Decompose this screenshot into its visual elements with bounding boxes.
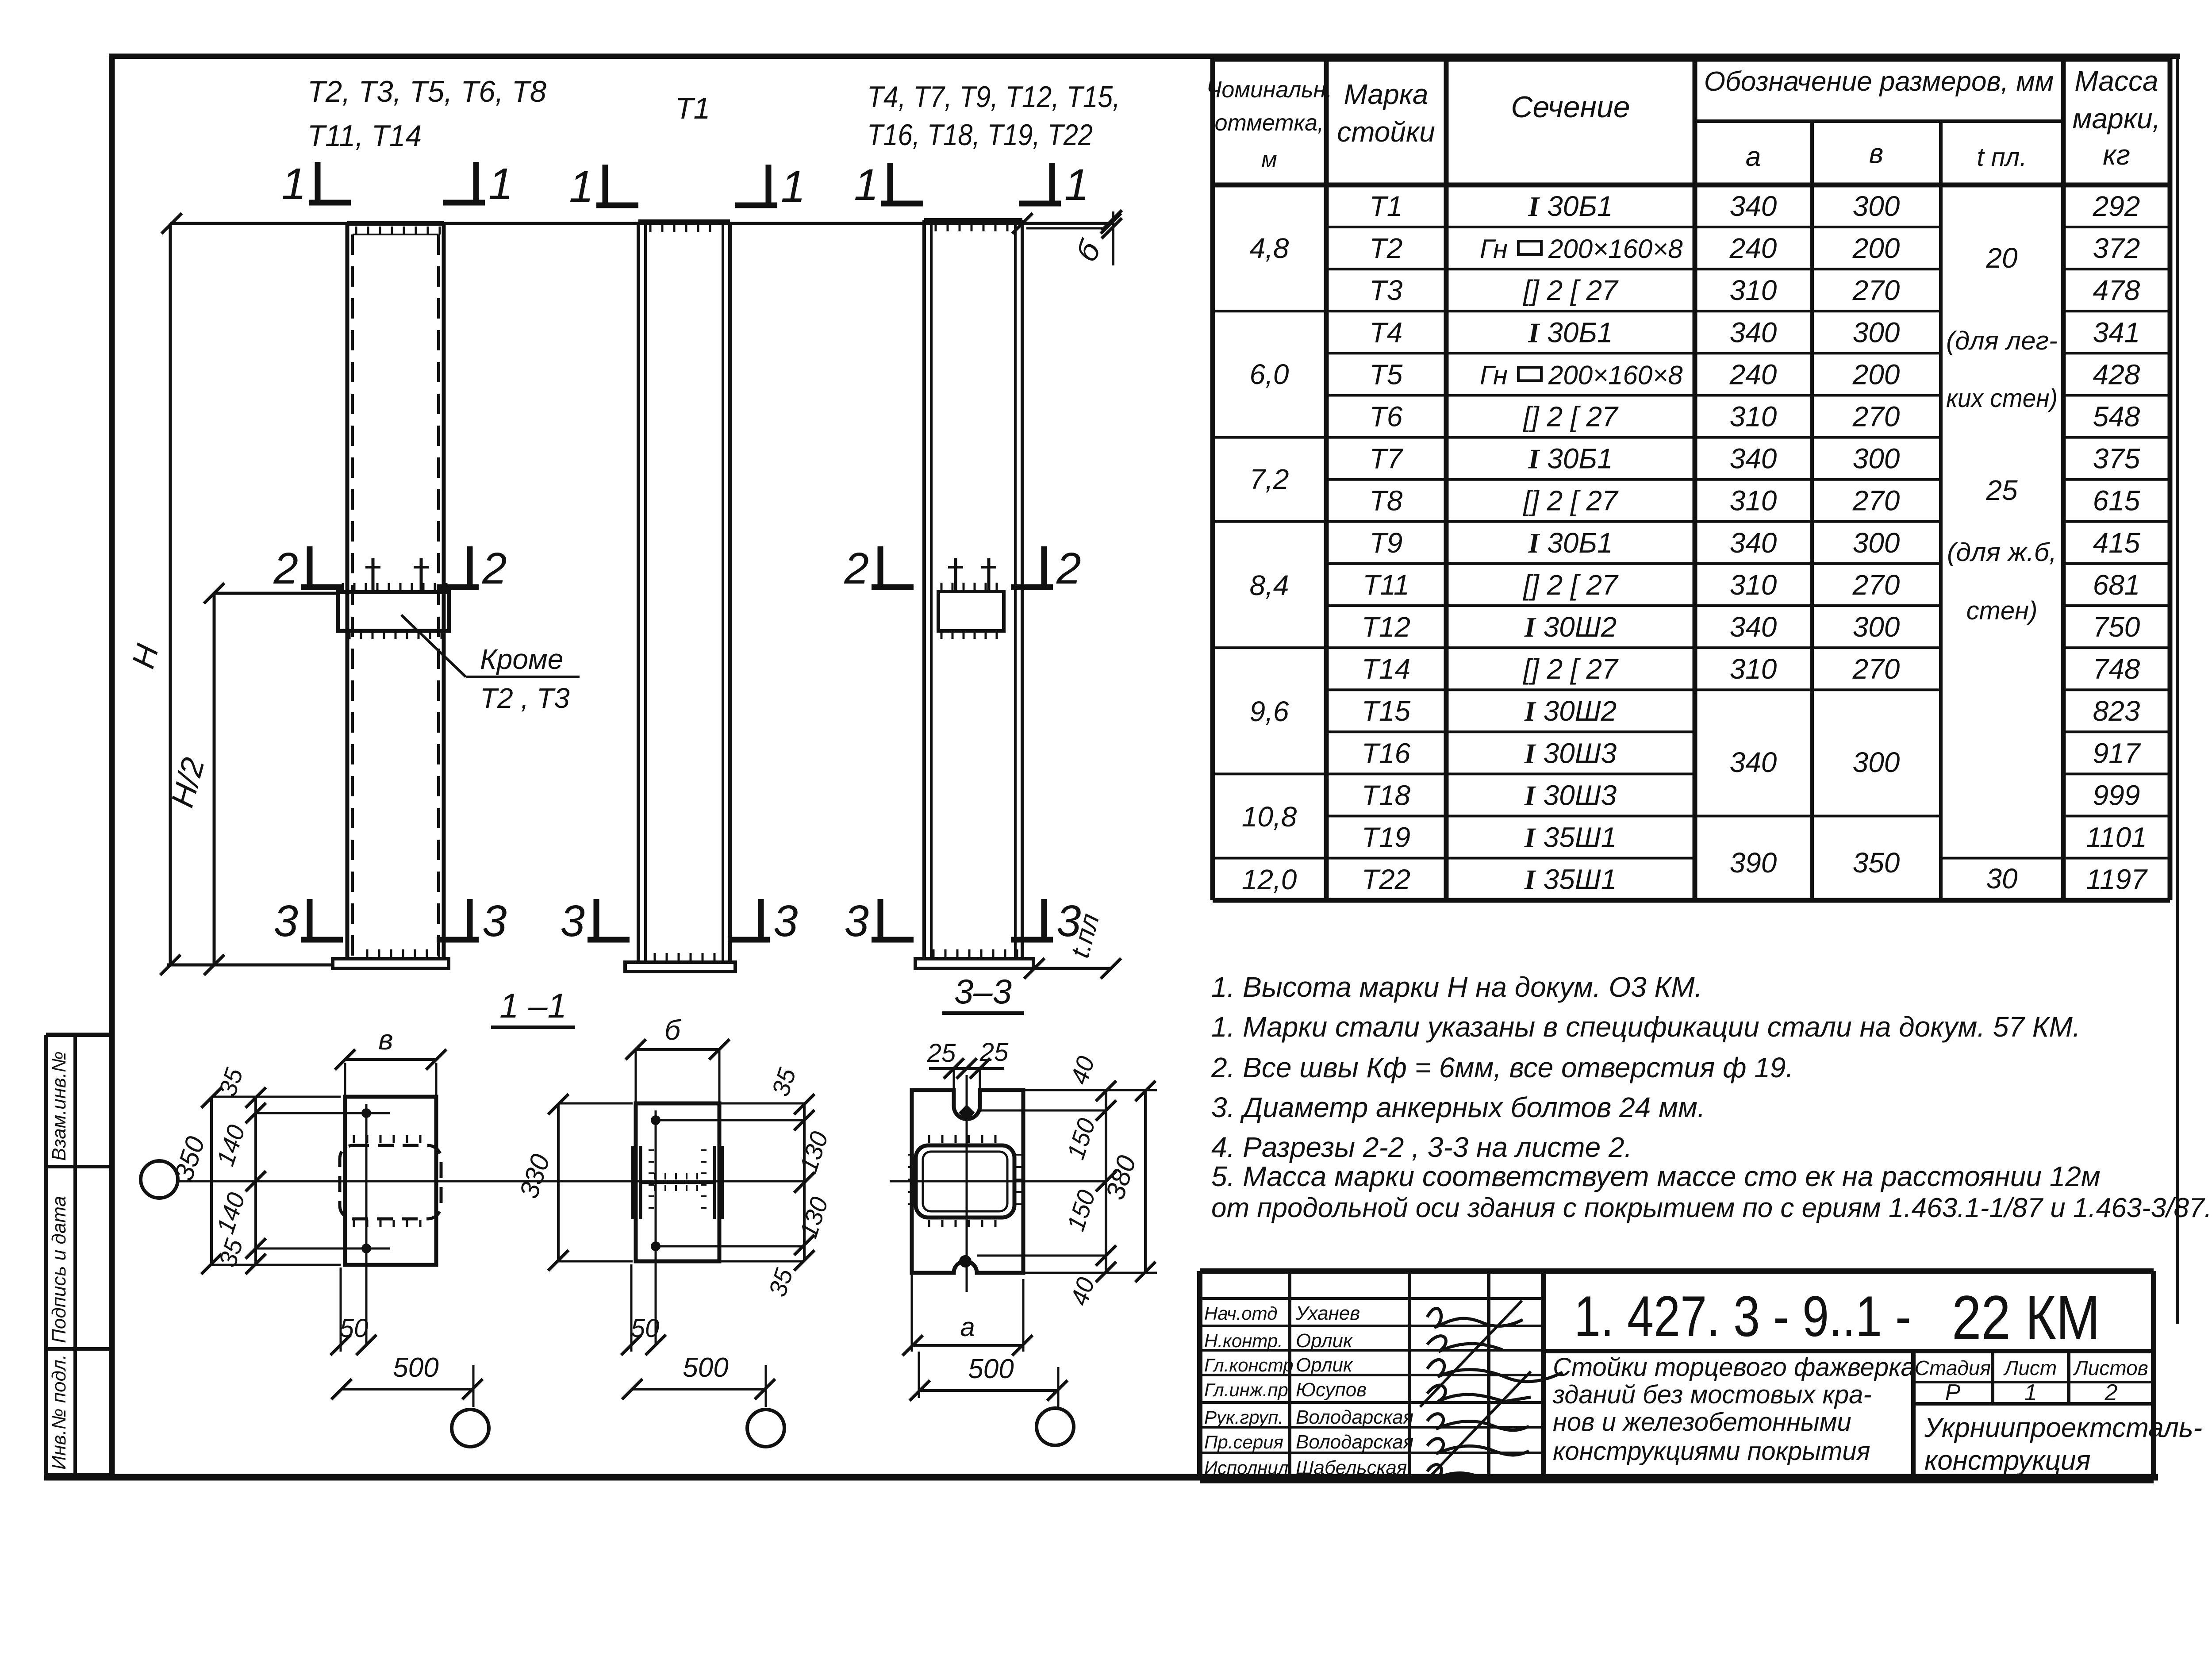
svg-text:Листов: Листов [2073,1356,2148,1379]
svg-text:I 30Б1: I 30Б1 [1528,443,1613,475]
leader: Кроме Т2, Т3 [401,615,466,677]
svg-text:[] 2 [ 27: [] 2 [ 27 [1522,274,1619,306]
section 1-1 view A: base plate [345,1097,436,1265]
svg-text:Взам.инв.№: Взам.инв.№ [48,1051,70,1161]
dim 380 (far right of 3-3) [1144,1090,1147,1273]
svg-text:3: 3 [273,896,298,946]
svg-text:б: б [664,1014,681,1046]
svg-text:Стадия: Стадия [1915,1356,1991,1379]
dimension б (top right) [1026,227,1105,230]
section 3-3: anchor bolt (bottom notch) [959,1255,972,1268]
svg-text:Т3: Т3 [1370,274,1403,306]
svg-text:I 35Ш1: I 35Ш1 [1524,864,1617,895]
svg-text:марки,: марки, [2073,103,2161,134]
svg-text:4. Разрезы 2-2 , 3-3 на: 4. Разрезы 2-2 , 3-3 на листе 2. [1211,1131,1632,1163]
svg-text:372: 372 [2093,232,2140,264]
svg-text:300: 300 [1853,611,1900,643]
svg-text:Орлик: Орлик [1296,1354,1353,1376]
svg-text:Пр.серия: Пр.серия [1204,1432,1283,1452]
svg-text:Т5: Т5 [1370,358,1403,390]
svg-text:3: 3 [560,896,585,946]
svg-text:Т18: Т18 [1362,779,1411,811]
dim 500 (bottom, left section) [341,1388,473,1390]
left frame strip (Инв.№ подл. / Подпись и дата / Взам.инв.№) [44,1035,48,1475]
svg-text:1. 427. 3 - 9..1 -: 1. 427. 3 - 9..1 - [1574,1284,1911,1348]
section mark 1 (right column, right) [1049,163,1055,204]
svg-text:375: 375 [2093,443,2140,475]
svg-text:[] 2 [ 27: [] 2 [ 27 [1522,485,1619,517]
svg-text:25: 25 [1985,474,2018,506]
dim 350 (left of section 1-1 A) [210,1097,213,1265]
base plate of middle column [625,962,735,972]
svg-text:1: 1 [854,160,879,210]
svg-text:2. Все швы Кф = 6мм, все: 2. Все швы Кф = 6мм, все отверстия ф 19. [1211,1052,1793,1083]
svg-text:615: 615 [2093,485,2140,517]
svg-text:1: 1 [781,162,806,211]
svg-text:270: 270 [1852,401,1900,433]
svg-text:340: 340 [1730,190,1777,222]
svg-text:конструкция: конструкция [1924,1445,2091,1476]
svg-text:Н.контр.: Н.контр. [1204,1330,1283,1351]
svg-text:310: 310 [1730,569,1777,601]
svg-text:3–3: 3–3 [954,972,1012,1011]
dim chain 40/150/150/40 (right of 3-3) [1105,1090,1107,1273]
svg-text:2: 2 [2104,1380,2118,1406]
svg-text:I 30Ш2: I 30Ш2 [1524,695,1617,727]
svg-text:I 30Ш3: I 30Ш3 [1524,779,1617,811]
svg-text:310: 310 [1730,653,1777,685]
svg-text:а: а [1746,142,1761,172]
column elevation T1 [637,222,640,962]
section mark 1 (left column, right) [473,162,479,203]
svg-text:I 30Б1: I 30Б1 [1528,190,1613,222]
svg-text:Гн: Гн [1480,234,1508,264]
svg-text:Т4: Т4 [1370,316,1403,348]
svg-text:Т14: Т14 [1362,653,1410,685]
dim в (top of section 1-1 A) [345,1058,436,1061]
svg-text:3: 3 [773,896,798,946]
section mark 3 (right column) [878,899,883,940]
grid circle below section 3-3 [1037,1408,1074,1445]
svg-text:Подпись и дата: Подпись и дата [48,1196,70,1343]
svg-text:[] 2 [ 27: [] 2 [ 27 [1522,653,1619,685]
svg-text:270: 270 [1852,274,1900,306]
svg-text:Т19: Т19 [1362,822,1410,853]
svg-text:Т6: Т6 [1370,401,1403,433]
svg-text:I 30Б1: I 30Б1 [1528,527,1613,559]
svg-text:748: 748 [2093,653,2140,685]
svg-text:300: 300 [1853,527,1900,559]
svg-text:20: 20 [1985,242,2018,274]
svg-text:1. Высота марки Н на до: 1. Высота марки Н на докум. О3 КМ. [1211,971,1702,1003]
svg-text:500: 500 [968,1354,1014,1384]
svg-text:1. Марки стали указаны в с: 1. Марки стали указаны в спецификации ст… [1211,1011,2081,1043]
section 1-1 view B: I-beam flanges [631,1146,634,1219]
dim а (below 3-3) [911,1273,913,1352]
svg-text:зданий без мостовых кра-: зданий без мостовых кра- [1552,1380,1872,1409]
svg-text:(для лег-: (для лег- [1946,326,2058,355]
svg-text:681: 681 [2093,569,2140,601]
svg-text:а: а [960,1312,975,1342]
svg-text:Т8: Т8 [1370,485,1403,517]
bolt lines section 1-1 A [256,1112,390,1114]
svg-text:50: 50 [340,1314,369,1343]
svg-text:7,2: 7,2 [1250,463,1289,495]
axis line through sections 1-1 [178,1180,804,1183]
bottom reference line at column bases [167,964,333,967]
svg-text:240: 240 [1729,358,1777,390]
svg-text:Сечение: Сечение [1511,90,1630,124]
svg-text:292: 292 [2093,190,2140,222]
svg-text:310: 310 [1730,274,1777,306]
base plate of left column [333,959,449,968]
svg-text:9,6: 9,6 [1250,695,1289,727]
svg-text:200×160×8: 200×160×8 [1548,360,1683,390]
svg-text:Марка: Марка [1344,78,1428,110]
svg-text:Т2, Т3, Т5, Т6, Т8: Т2, Т3, Т5, Т6, Т8 [307,75,546,108]
svg-text:200: 200 [1852,232,1900,264]
svg-text:Т4, Т7, Т9, Т12, Т15,: Т4, Т7, Т9, Т12, Т15, [867,80,1120,114]
svg-text:270: 270 [1852,485,1900,517]
section 3-3: base plate with slots [912,1090,1023,1273]
svg-text:200×160×8: 200×160×8 [1548,234,1683,264]
svg-text:4,8: 4,8 [1250,232,1289,264]
svg-text:2: 2 [273,544,298,593]
svg-text:стен): стен) [1966,596,2038,625]
svg-text:Гл.констр: Гл.констр [1204,1355,1294,1375]
section mark 1 (middle column, left) [603,165,608,205]
svg-text:Гл.инж.пр.: Гл.инж.пр. [1204,1379,1294,1400]
dim 50 (below section 1-1 A) [340,1268,342,1352]
svg-text:ких стен): ких стен) [1946,384,2058,413]
svg-text:I 30Ш3: I 30Ш3 [1524,737,1617,769]
svg-text:50: 50 [631,1314,660,1343]
svg-text:I 35Ш1: I 35Ш1 [1524,822,1617,853]
svg-text:Т12: Т12 [1362,611,1410,643]
svg-text:300: 300 [1853,316,1900,348]
svg-text:548: 548 [2093,401,2140,433]
svg-text:Т15: Т15 [1362,695,1411,727]
column elevation T4/T7/T9/T12/T15/T16/T18/T19/T22 [922,220,926,959]
right dim chain 35/130/130/35 (section 1-1 B) [803,1103,806,1261]
svg-text:6,0: 6,0 [1250,358,1289,390]
svg-text:Т7: Т7 [1370,443,1404,475]
svg-text:1: 1 [1064,160,1089,210]
svg-text:10,8: 10,8 [1242,801,1297,833]
svg-text:240: 240 [1729,232,1777,264]
svg-text:Уханев: Уханев [1295,1302,1360,1324]
section 1-1 view A: box profile (hidden, dashed) [340,1145,441,1219]
dim 50 (below section 1-1 B) [630,1264,633,1352]
svg-text:Юсупов: Юсупов [1296,1379,1367,1401]
svg-text:428: 428 [2093,358,2140,390]
svg-text:м: м [1261,147,1277,173]
svg-text:Володарская: Володарская [1296,1406,1413,1428]
dimension H/2 [213,593,216,965]
svg-text:390: 390 [1730,847,1777,879]
svg-text:Т2 , Т3: Т2 , Т3 [480,682,570,714]
axis circle (grid mark, left) [141,1161,178,1198]
section mark 3 (middle column) [594,899,599,940]
svg-text:конструкциями покрытия: конструкциями покрытия [1553,1437,1870,1466]
svg-text:750: 750 [2093,611,2140,643]
svg-text:8,4: 8,4 [1250,569,1289,601]
svg-text:350: 350 [1853,847,1900,879]
svg-text:Т11, Т14: Т11, Т14 [307,119,422,153]
svg-text:Масса: Масса [2074,65,2158,97]
svg-text:Т16, Т18, Т19, Т22: Т16, Т18, Т19, Т22 [867,118,1093,152]
svg-text:1101: 1101 [2086,822,2147,853]
svg-text:Т2: Т2 [1370,232,1403,264]
svg-text:310: 310 [1730,401,1777,433]
title text [1544,1349,2154,1353]
svg-text:Укрниипроектсталь-: Укрниипроектсталь- [1924,1413,2202,1443]
bracket on right column [938,592,1004,631]
title block [1197,1271,1202,1480]
svg-text:Т9: Т9 [1370,527,1403,559]
svg-text:Т1: Т1 [1370,190,1403,222]
section 1-1 view B: base plate [636,1103,719,1261]
svg-text:340: 340 [1730,316,1777,348]
svg-text:Нач.отд: Нач.отд [1204,1303,1277,1324]
svg-text:Орлик: Орлик [1296,1330,1353,1352]
svg-text:Лист: Лист [2003,1356,2057,1379]
bolt lines section 1-1 B [656,1119,804,1122]
svg-text:[] 2 [ 27: [] 2 [ 27 [1522,569,1619,601]
svg-text:25: 25 [927,1039,956,1068]
base plate of right column [915,959,1033,968]
svg-text:Чоминальн.: Чоминальн. [1206,77,1332,103]
svg-text:от продольной оси здания с: от продольной оси здания с покрытием по … [1211,1193,2212,1223]
svg-text:отметка,: отметка, [1215,110,1324,136]
svg-text:3. Диаметр анкерных болтов: 3. Диаметр анкерных болтов 24 мм. [1211,1091,1705,1123]
svg-text:Т22: Т22 [1362,864,1410,895]
svg-text:нов и железобетонными: нов и железобетонными [1553,1408,1851,1437]
axis line through section 3-3 [890,1180,1106,1183]
section mark 2 (left column) [307,546,313,587]
svg-text:478: 478 [2093,274,2140,306]
svg-text:t пл.: t пл. [1977,143,2027,172]
section mark 1 (right column, left) [887,163,893,204]
svg-text:Кроме: Кроме [480,643,563,675]
svg-text:2: 2 [1056,544,1081,593]
section 3-3 centre line [966,1075,968,1292]
dim 25 25 (top of 3-3) [929,1067,1004,1070]
svg-text:стойки: стойки [1337,116,1435,148]
svg-text:415: 415 [2093,527,2140,559]
svg-text:1: 1 [281,159,306,209]
svg-text:340: 340 [1730,746,1777,778]
svg-text:Рук.груп.: Рук.груп. [1204,1407,1283,1428]
table: columns of posts [1210,59,1215,900]
svg-text:917: 917 [2093,737,2141,769]
svg-text:340: 340 [1730,443,1777,475]
dimension t.пл (bottom right) [1033,967,1112,970]
svg-text:Исполнил: Исполнил [1204,1457,1288,1478]
svg-text:340: 340 [1730,611,1777,643]
svg-text:Т1: Т1 [675,92,710,125]
svg-text:200: 200 [1852,358,1900,390]
dim б (top of section 1-1 B) [636,1048,719,1051]
svg-text:341: 341 [2093,316,2140,348]
svg-text:Инв.№ подл.: Инв.№ подл. [48,1354,70,1470]
svg-text:999: 999 [2093,779,2140,811]
bracket (console) on left column [338,592,449,631]
svg-text:270: 270 [1852,569,1900,601]
svg-text:25: 25 [979,1038,1009,1067]
svg-text:500: 500 [393,1352,438,1383]
dim 500 (bottom, 3-3) [919,1389,1058,1392]
svg-text:I 30Б1: I 30Б1 [1528,316,1613,348]
dim 500 (bottom, middle section) [631,1388,766,1390]
svg-text:кг: кг [2103,139,2130,171]
section mark 1 (middle column, right) [766,165,772,205]
svg-text:[] 2 [ 27: [] 2 [ 27 [1522,401,1619,433]
svg-text:1: 1 [488,159,513,209]
section 3-3: anchor bolt (top slot) [959,1105,975,1121]
dim 330 (left of section 1-1 B) [557,1103,560,1261]
svg-text:1197: 1197 [2086,864,2148,895]
dim chain 35/140/140/35 [254,1097,257,1265]
top dimension line (elevation top) [170,222,1112,225]
svg-text:2: 2 [482,544,507,593]
svg-text:в: в [1869,138,1883,169]
svg-text:1: 1 [569,162,594,211]
section mark 1 (left column, left) [315,162,321,203]
svg-text:I 30Ш2: I 30Ш2 [1524,611,1617,643]
section 3-3: box profile [916,1145,1014,1218]
dimension H (vertical) [169,223,172,965]
svg-text:1: 1 [2024,1380,2037,1406]
svg-text:310: 310 [1730,485,1777,517]
sheet frame border [109,54,115,1478]
svg-text:в: в [378,1024,393,1056]
svg-text:22 КМ: 22 КМ [1952,1283,2100,1352]
grid circle below middle section [747,1410,784,1447]
section mark 3 (left column) [307,899,313,940]
svg-text:Володарская: Володарская [1296,1431,1413,1453]
svg-text:Т16: Т16 [1362,737,1411,769]
svg-text:Гн: Гн [1480,360,1508,390]
svg-text:(для ж.б,: (для ж.б, [1947,538,2057,567]
svg-text:300: 300 [1853,746,1900,778]
grid circle below left section [452,1410,489,1447]
svg-text:340: 340 [1730,527,1777,559]
svg-text:1 –1: 1 –1 [499,986,567,1025]
svg-text:823: 823 [2093,695,2140,727]
svg-text:30: 30 [1986,863,2018,895]
svg-text:2: 2 [844,544,869,593]
svg-text:300: 300 [1853,190,1900,222]
svg-text:3: 3 [844,896,869,946]
svg-text:270: 270 [1852,653,1900,685]
svg-text:3: 3 [482,896,507,946]
svg-text:300: 300 [1853,443,1900,475]
svg-text:Р: Р [1945,1380,1961,1406]
column elevation T2/T3/T5/T6/T8/T11/T14 [346,223,349,959]
svg-text:Шабельская: Шабельская [1296,1457,1407,1479]
svg-text:5. Масса марки соответствуе: 5. Масса марки соответствует массе сто е… [1211,1160,2101,1192]
svg-text:Т11: Т11 [1363,569,1409,601]
svg-text:Стойки торцевого фажверка: Стойки торцевого фажверка [1553,1353,1915,1382]
svg-text:500: 500 [683,1352,728,1383]
svg-text:12,0: 12,0 [1242,864,1297,895]
svg-text:Обозначение размеров, мм: Обозначение размеров, мм [1704,66,2054,97]
стадия лист листов [1911,1351,1916,1480]
section mark 2 (right column) [878,546,883,587]
